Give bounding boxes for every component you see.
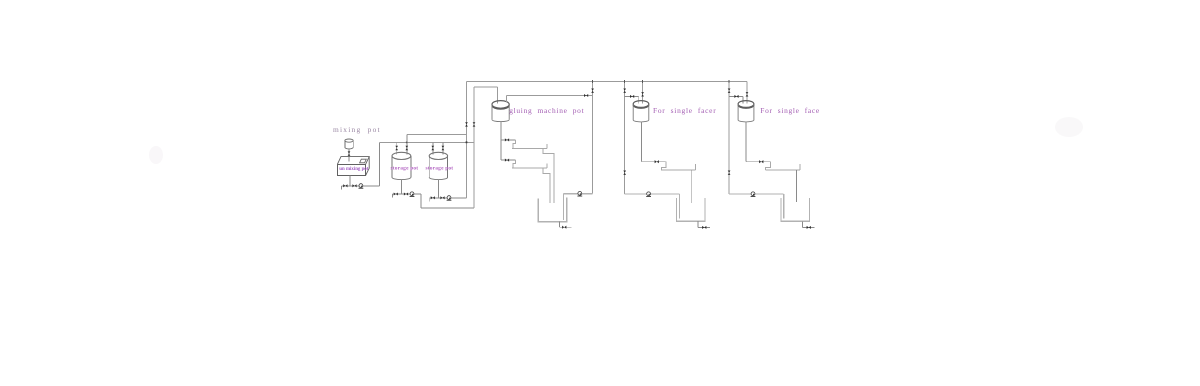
facer1 pot vessel <box>633 101 649 122</box>
hopper cylinder on mixing pot <box>345 139 353 149</box>
top supply bus line <box>466 81 747 83</box>
valve pot2 right inlet <box>442 146 445 150</box>
gluing machine pot vessel <box>492 101 509 122</box>
facer1 tray drop pipe <box>691 170 693 203</box>
pipe mixing box outlet <box>349 176 351 186</box>
mixing box (isometric) <box>337 157 369 176</box>
facer1 downcomer <box>661 162 666 170</box>
facer2 downcomer <box>766 162 771 170</box>
storage pot2 left inlet pipe <box>432 143 434 155</box>
junction tick facer1 A <box>624 80 626 83</box>
facer1 supply vertical B <box>642 82 644 104</box>
storage pot1 right inlet pipe <box>406 134 408 154</box>
svg-text:gluing machine pot: gluing machine pot <box>509 106 584 115</box>
valve mixing outlet <box>352 184 356 187</box>
facer2 pot feed branch <box>729 96 743 103</box>
mixing outlet header pipe <box>342 186 380 190</box>
valve facer2 A upper <box>728 89 731 93</box>
valve facer1 B <box>641 92 644 96</box>
tank facer1 drain <box>698 221 710 227</box>
facer2 pump run <box>729 194 784 219</box>
facer2 spray branch <box>746 161 771 163</box>
valve pot2 left inlet <box>431 146 434 150</box>
pot1 outlet header <box>392 194 420 198</box>
facer2 tray <box>765 164 800 170</box>
faint background artifact right <box>1055 117 1083 137</box>
storage feed bus <box>379 142 474 144</box>
valve pot1 outlet <box>404 192 408 195</box>
hatch on mixing box top <box>360 159 367 163</box>
svg-text:storage pot: storage pot <box>426 165 454 171</box>
tray 1 drain <box>543 149 554 203</box>
svg-text:mixing pot: mixing pot <box>333 125 381 134</box>
gluing spray branch 2 <box>501 159 516 161</box>
facer2 tray drop pipe <box>795 170 797 202</box>
collection tank gluing <box>538 198 567 222</box>
pot1 pump discharge run <box>421 194 474 208</box>
pump facer1 <box>646 192 651 197</box>
facer2 pot vessel <box>738 101 754 122</box>
junction tick gluing riser <box>592 80 594 83</box>
branch 2 downcomer <box>513 160 516 168</box>
valve facer1 A lower <box>623 171 626 175</box>
gluing spray branch 1 <box>501 139 516 141</box>
faint background artifact left <box>149 146 163 164</box>
facer1 pot bottom pipe <box>641 122 643 162</box>
tray 1 <box>512 144 547 149</box>
return vertical (bus to pot2 pump) <box>466 82 468 198</box>
storage pot2 right inlet pipe <box>442 143 444 155</box>
valve facer1 branch <box>655 160 659 163</box>
tray 2 drain <box>543 168 550 203</box>
pot2 outlet pipe <box>438 179 440 197</box>
tank gluing drain <box>559 222 571 228</box>
valve facer1 A upper <box>623 89 626 93</box>
junction dot bus/return vertical <box>466 141 468 143</box>
gluing pot feed riser <box>474 87 498 208</box>
return riser gluing to bus <box>592 82 594 194</box>
valve pot2 outlet <box>440 196 444 199</box>
valve branch 2 <box>505 159 509 162</box>
facer1 supply vertical A <box>624 82 626 194</box>
junction dot pot1 return pipe <box>406 142 408 144</box>
storage pot2 vessel <box>429 152 447 179</box>
valve return riser gluing <box>591 89 594 93</box>
collection tank facer1 <box>677 198 706 221</box>
junction tick facer2 A <box>728 80 730 83</box>
valve return vertical <box>465 122 468 126</box>
valve tank facer1 drain <box>702 226 706 229</box>
valve facer1 feed branch <box>630 95 634 98</box>
riser mixing to bus <box>378 143 380 186</box>
tank facer2 drain <box>803 221 815 227</box>
facer2 supply vertical A <box>728 82 730 194</box>
pump mixing <box>359 184 364 189</box>
gluing pot bottom pipe <box>500 121 502 160</box>
facer1 pot feed branch <box>625 96 639 103</box>
valve facer2 A lower <box>728 171 731 175</box>
valve gluing feed riser <box>473 122 476 126</box>
valve hopper (vertical) <box>348 151 351 155</box>
collection tank facer2 <box>781 198 810 222</box>
valve facer2 B <box>746 92 749 96</box>
facer2 pot bottom pipe <box>745 122 747 162</box>
tank gluing suction riser <box>564 194 593 220</box>
valve branch 1 <box>505 138 509 141</box>
branch 1 downcomer <box>513 140 516 149</box>
storage pot1 vessel <box>392 152 411 179</box>
valve pot1 left inlet <box>395 146 398 150</box>
facer1 spray branch <box>642 161 667 163</box>
return header to storage pot1 <box>407 133 467 135</box>
valve tank facer2 drain <box>807 226 811 229</box>
valve pot1 right inlet <box>405 146 408 150</box>
valve pot2 drain <box>431 196 435 199</box>
storage pot1 left inlet pipe <box>396 143 398 155</box>
pump pot1 <box>410 192 415 197</box>
junction tick facer1 B <box>642 80 644 83</box>
facer2 supply vertical B <box>746 82 748 104</box>
pot1 outlet pipe <box>400 179 402 194</box>
facer1 tray <box>661 164 696 170</box>
svg-text:storage pot: storage pot <box>391 165 419 171</box>
valve mixing drain <box>343 184 347 187</box>
tray 2 <box>512 164 547 168</box>
pump tank gluing <box>577 192 582 197</box>
facer1 pump run <box>625 194 680 219</box>
svg-text:For single face: For single face <box>760 106 820 115</box>
svg-text:For single facer: For single facer <box>653 106 716 115</box>
valve tank gluing drain <box>562 226 566 229</box>
pipe hopper to mixing box <box>348 149 350 162</box>
pump facer2 <box>751 192 756 197</box>
valve pot1 drain <box>394 192 398 195</box>
pot2 outlet header <box>430 198 467 202</box>
gluing pot outlet riser <box>506 96 592 103</box>
valve gluing outlet <box>584 94 588 97</box>
valve facer2 feed branch <box>734 95 738 98</box>
svg-text:un mixing pot: un mixing pot <box>339 167 368 172</box>
pump pot2 <box>447 196 452 201</box>
valve facer2 branch <box>759 160 763 163</box>
